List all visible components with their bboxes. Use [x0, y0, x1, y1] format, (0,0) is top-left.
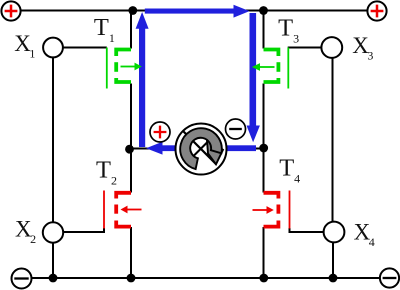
supply terminal plus left [1, 1, 20, 20]
junction dot motor left [125, 145, 134, 154]
blue current path: down arrowhead above right motor node [247, 126, 260, 143]
wire right bridge column lower (motor node to drain T4) [263, 148, 265, 193]
blue current path: left arrowhead into motor left node [146, 142, 163, 155]
blue current path: right arrowhead on top bar [234, 5, 250, 18]
wire motor row [131, 148, 264, 150]
transistor T2 gate line [103, 191, 105, 229]
junction dot top left [128, 6, 137, 15]
terminal X3 circle [321, 37, 342, 58]
motor rotation arrowhead [207, 141, 223, 165]
junction dot rail X2 [49, 274, 58, 283]
wire X3 lead to gate T3 [288, 47, 322, 49]
transistor T1 gate line [106, 48, 108, 89]
motor rotation arrow (gray annular arc, clockwise) [180, 128, 222, 169]
wire right bridge column bottom (source T4 to rail) [263, 227, 265, 278]
blue current path: left vertical bar (up through T1) [139, 27, 145, 147]
wire X4 lead to gate T4 [290, 228, 325, 232]
supply terminal plus right [367, 1, 386, 20]
blue current path: top horizontal bar [145, 9, 234, 14]
motor cross short arm BL-TR [193, 141, 209, 157]
wire left outer column X2-rail [52, 243, 54, 278]
wire left bridge column bottom (source T2 to rail) [130, 227, 132, 278]
blue current path: right vertical bar (down through T3) [250, 13, 257, 126]
motor polarity plus circle [150, 122, 170, 142]
transistor T1 channel bracket top [116, 50, 131, 57]
blue current path: up arrowhead at top of T1 [136, 12, 149, 29]
terminal X4 circle [324, 222, 345, 243]
motor cross long arm TL-BR [184, 132, 217, 165]
svg-text:X2: X2 [15, 217, 36, 247]
transistor T3 channel bracket top [264, 50, 279, 57]
svg-text:T3: T3 [278, 15, 299, 46]
transistor T2 channel bracket top [116, 193, 131, 199]
transistor T1 arrow [121, 66, 136, 68]
transistor T4 gate line [289, 191, 291, 229]
supply terminal minus right [380, 268, 399, 287]
svg-text:T1: T1 [94, 14, 115, 45]
wire right bridge column upper (drain T3) [263, 11, 265, 49]
junction dot top right [259, 6, 268, 15]
wire X1 lead to gate T1 [63, 47, 107, 49]
wire left bridge column lower (motor node to drain T2) [130, 149, 132, 193]
transistor T1 channel bracket bottom [116, 78, 131, 82]
svg-text:T2: T2 [96, 157, 117, 188]
blue current path: bottom horizontal bar (through motor) [162, 145, 256, 151]
svg-text:X3: X3 [352, 33, 373, 63]
transistor T4 channel bracket top [264, 193, 279, 199]
transistor T4 channel dash [276, 205, 280, 214]
transistor T4 arrow [253, 209, 268, 211]
motor polarity plus sign [154, 126, 167, 139]
wire top rail [21, 10, 368, 12]
transistor T4 channel bracket bottom [264, 221, 279, 227]
wire right outer column X4-rail [332, 243, 334, 279]
junction dot motor right [259, 144, 268, 153]
transistor T3 arrow [260, 66, 275, 68]
supply terminal minus left [12, 269, 32, 289]
wire right outer column X3-X4 [332, 58, 334, 222]
terminal X1 circle [43, 38, 63, 58]
transistor T3 channel bracket bottom [264, 78, 279, 82]
motor polarity minus circle [226, 119, 246, 139]
svg-text:X4: X4 [354, 220, 375, 250]
junction dot rail T2 [127, 274, 136, 283]
motor M circle [176, 124, 227, 175]
svg-text:T4: T4 [279, 155, 300, 186]
transistor T3 channel dash [276, 62, 280, 72]
wire left bridge column upper (drain T1) [130, 11, 132, 49]
transistor T1 channel dash [114, 62, 118, 72]
transistor T2 arrow [127, 209, 142, 211]
svg-text:X1: X1 [14, 31, 35, 61]
terminal X2 circle [43, 222, 63, 242]
transistor T2 channel bracket bottom [116, 221, 131, 227]
wire left outer column X1-X2 [52, 58, 54, 223]
motor polarity minus sign [229, 128, 242, 130]
transistor T3 gate line [287, 48, 289, 89]
wire left bridge column mid (source T1 to motor node) [130, 84, 132, 150]
transistor T2 channel dash [114, 205, 118, 214]
wire X2 lead to gate T2 [63, 228, 104, 232]
junction dot rail T4 [259, 274, 268, 283]
junction dot rail X4 [329, 274, 338, 283]
wire bottom rail [32, 277, 381, 279]
wire right bridge column mid (source T3 to motor node) [263, 84, 265, 149]
